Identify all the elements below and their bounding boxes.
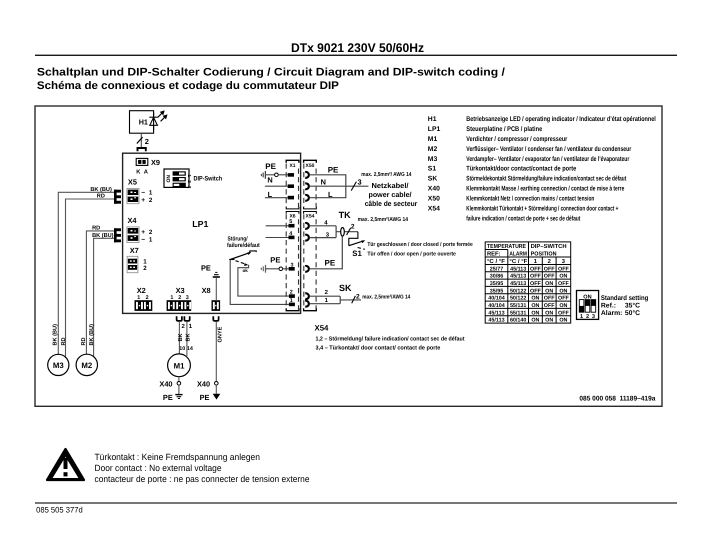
svg-text:50/122: 50/122 — [510, 288, 527, 294]
svg-text:ON: ON — [531, 303, 539, 309]
svg-text:ON: ON — [559, 303, 567, 309]
relay arm — [229, 259, 234, 261]
TK cable join bar — [335, 226, 337, 238]
svg-text:M2: M2 — [81, 361, 92, 370]
svg-text:3: 3 — [592, 314, 595, 320]
svg-text:Türkontakt : Keine Fremdspannu: Türkontakt : Keine Fremdspannung anlegen — [95, 452, 261, 462]
svg-text:50°C: 50°C — [625, 310, 640, 317]
svg-text:2: 2 — [290, 290, 293, 296]
svg-text:BK: BK — [186, 333, 192, 341]
svg-text:BK: BK — [178, 333, 184, 341]
svg-text:Verflüssiger– Ventilator / con: Verflüssiger– Ventilator / condenser fan… — [466, 146, 631, 153]
SK cable join bar — [339, 296, 341, 304]
svg-text:M1: M1 — [428, 136, 438, 143]
X6 column bracket top — [286, 212, 299, 214]
svg-text:PE: PE — [270, 255, 280, 264]
svg-text:TK: TK — [339, 210, 351, 220]
wire L to X1 — [265, 197, 288, 199]
svg-text:PE: PE — [265, 162, 276, 171]
X6 pin 4 — [289, 236, 295, 240]
svg-text:Tür geschlossen / door closed: Tür geschlossen / door closed / porte fe… — [367, 241, 472, 248]
svg-text:+: + — [141, 229, 145, 236]
svg-text:max. 2,5mm²/AWG 14: max. 2,5mm²/AWG 14 — [358, 216, 409, 223]
svg-text:085 505 377d: 085 505 377d — [36, 505, 83, 514]
svg-text:60/140: 60/140 — [510, 318, 527, 324]
wire X4 RD to M2 — [86, 231, 114, 355]
svg-text:DIP-Switch: DIP-Switch — [194, 175, 223, 182]
svg-text:3: 3 — [358, 178, 362, 187]
wire X50 N to cable — [310, 185, 346, 187]
svg-text:OFF: OFF — [530, 288, 541, 294]
lamp H1 box — [130, 111, 154, 134]
temperature DIP-switch table — [485, 242, 571, 323]
svg-text:X50: X50 — [428, 196, 440, 203]
wire X8 GNYE to X40 — [215, 322, 217, 382]
X6 pin 2 — [289, 294, 295, 298]
mains cable stub with 3-wire slash — [346, 185, 369, 187]
svg-text:PE: PE — [200, 393, 210, 402]
svg-text:ON: ON — [166, 175, 172, 183]
svg-text:Steuerplatine / PCB / platine: Steuerplatine / PCB / platine — [466, 126, 542, 133]
svg-text:OFF: OFF — [530, 281, 541, 287]
svg-text:X2: X2 — [137, 286, 146, 295]
X9 mating plug staple — [138, 148, 146, 151]
svg-text:H1: H1 — [428, 116, 437, 123]
svg-text:1,2 – Störmeldung/ failure ind: 1,2 – Störmeldung/ failure indication/ c… — [316, 335, 465, 342]
svg-text:X50: X50 — [306, 163, 315, 169]
X54 column bracket bottom — [304, 308, 317, 310]
svg-text:2: 2 — [356, 293, 360, 300]
svg-text:SK: SK — [428, 176, 438, 183]
svg-text:35/95: 35/95 — [490, 281, 504, 287]
svg-text:−: − — [141, 190, 145, 197]
svg-text:H1: H1 — [139, 117, 148, 126]
motor M1 compressor — [168, 354, 191, 377]
svg-text:Türkontakt/door contact/contac: Türkontakt/door contact/contact de porte — [466, 166, 576, 173]
clip under X3 pin 3 — [184, 316, 189, 321]
svg-text:ON: ON — [545, 281, 553, 287]
svg-text:55/131: 55/131 — [510, 310, 527, 316]
svg-text:RD: RD — [81, 337, 87, 345]
X1 column bracket top — [286, 160, 299, 162]
svg-text:M1: M1 — [174, 361, 185, 370]
svg-text:50/122: 50/122 — [510, 296, 527, 302]
svg-text:BK (BU): BK (BU) — [88, 324, 95, 346]
motor M2 — [76, 354, 97, 375]
svg-text:Störmeldekontakt Störmeldung/f: Störmeldekontakt Störmeldung/failure ind… — [466, 176, 627, 183]
wire X4 BK (BU) to M2 — [94, 238, 114, 356]
svg-text:OFF: OFF — [558, 281, 569, 287]
svg-text:Klemmkontakt Masse / earthing: Klemmkontakt Masse / earthing connection… — [466, 186, 624, 193]
X5 mating plug — [114, 190, 121, 204]
svg-text:BK (BU): BK (BU) — [92, 232, 114, 239]
svg-text:−: − — [141, 236, 145, 243]
svg-text:K A: K A — [136, 169, 148, 175]
svg-text:30/86: 30/86 — [490, 274, 504, 280]
X50 socket L — [305, 195, 309, 201]
svg-text:Ref.:: Ref.: — [601, 303, 616, 310]
svg-text:S1: S1 — [428, 166, 437, 173]
clip under X8 — [213, 316, 218, 321]
svg-text:L: L — [328, 190, 333, 199]
PCB LP1 frame — [123, 153, 301, 313]
svg-text:2: 2 — [351, 223, 355, 230]
X50 socket PE — [305, 172, 309, 178]
svg-text:Door contact : No external vol: Door contact : No external voltage — [95, 463, 222, 473]
clip under X3 pin 2 — [177, 316, 182, 321]
svg-text:LP1: LP1 — [192, 219, 208, 229]
svg-text:ON: ON — [545, 318, 553, 324]
svg-text:X7: X7 — [130, 246, 139, 255]
wire X54-1 to SK — [310, 303, 341, 305]
svg-text:3,4 – Türkontakt/ door contact: 3,4 – Türkontakt/ door contact/ contact … — [316, 344, 442, 351]
svg-text:Alarm:: Alarm: — [601, 310, 623, 317]
slash 2-wire mark at H1 — [137, 137, 143, 143]
svg-text:10: 10 — [179, 346, 185, 352]
svg-text:2: 2 — [145, 137, 149, 146]
svg-text:RD: RD — [92, 226, 100, 232]
svg-text:40/104: 40/104 — [488, 303, 505, 309]
svg-text:35°C: 35°C — [625, 303, 640, 310]
X1 column bracket bottom — [286, 207, 299, 209]
X50 column bracket bottom — [304, 207, 317, 209]
svg-text:2: 2 — [149, 229, 153, 236]
wire X3 pin2 to M1 — [178, 322, 180, 354]
svg-text:LP1: LP1 — [428, 126, 441, 133]
X1 pin L — [288, 196, 294, 200]
svg-text:+: + — [141, 197, 145, 204]
PE earth sideways at X1 — [261, 171, 265, 179]
svg-text:POSITION: POSITION — [531, 251, 557, 258]
svg-text:1: 1 — [580, 314, 583, 320]
TK cable sheath ellipse — [341, 228, 345, 237]
wire X54 PE up to TK cable — [310, 236, 343, 268]
svg-text:DTx 9021 230V 50/60Hz: DTx 9021 230V 50/60Hz — [291, 41, 424, 55]
wire X5 RD to M3 — [66, 199, 115, 357]
svg-text:REF:: REF: — [487, 252, 501, 258]
svg-text:M3: M3 — [428, 156, 438, 163]
wire X50 PE to cable — [310, 175, 346, 198]
X1 column dashed sides — [285, 164, 287, 208]
svg-text:N: N — [321, 177, 326, 186]
svg-text:OFF: OFF — [530, 274, 541, 280]
svg-text:Klemmkontakt Netz / connection: Klemmkontakt Netz / connection mains / c… — [466, 196, 594, 203]
svg-text:X54: X54 — [428, 206, 440, 213]
svg-text:Störung/: Störung/ — [228, 235, 248, 242]
svg-text:ON: ON — [559, 318, 567, 324]
svg-text:OFF: OFF — [544, 274, 555, 280]
svg-text:X40: X40 — [428, 186, 440, 193]
svg-text:TEMPERATURE: TEMPERATURE — [487, 244, 526, 250]
svg-text:45/113: 45/113 — [510, 266, 526, 272]
X6 pin 5 — [289, 224, 295, 228]
X4 mating plug — [114, 228, 121, 242]
LED D1 symbol on H1 — [149, 113, 158, 131]
svg-text:X3: X3 — [176, 286, 185, 295]
svg-text:ON: ON — [559, 288, 567, 294]
svg-text:X9: X9 — [151, 158, 160, 167]
svg-text:power cable/: power cable/ — [369, 190, 412, 199]
svg-text:OFF: OFF — [530, 266, 541, 272]
svg-text:OFF: OFF — [558, 310, 569, 316]
svg-text:3: 3 — [291, 262, 294, 268]
wire X54-2 to SK — [310, 295, 341, 297]
svg-text:X54: X54 — [306, 214, 315, 220]
wire X5 BK (BU) to M3 — [58, 192, 114, 354]
svg-text:Schaltplan und DIP-Schalter Co: Schaltplan und DIP-Schalter Codierung / … — [37, 67, 505, 79]
relay dashed actuation line — [236, 261, 247, 265]
svg-text:PE: PE — [201, 264, 211, 273]
svg-text:ON: ON — [545, 288, 553, 294]
X54 socket 2 — [305, 293, 309, 299]
svg-text:failure/défaut: failure/défaut — [227, 242, 260, 249]
svg-text:Verdampfer– Ventilator / evapo: Verdampfer– Ventilator / evaporator fan … — [466, 156, 629, 163]
svg-text:S1: S1 — [352, 249, 362, 258]
svg-text:Betriebsanzeige LED / operatin: Betriebsanzeige LED / operating indicato… — [466, 116, 656, 123]
svg-text:45/113: 45/113 — [488, 318, 504, 324]
svg-text:OFF: OFF — [558, 266, 569, 272]
svg-text:ok: ok — [243, 268, 249, 273]
svg-text:PE: PE — [328, 166, 339, 175]
svg-text:GNYE: GNYE — [218, 326, 224, 342]
svg-text:Standard setting: Standard setting — [601, 295, 648, 302]
svg-text:X8: X8 — [202, 286, 211, 295]
door switch S1 — [349, 232, 358, 246]
wire X54-3 to TK — [310, 237, 336, 239]
svg-text:1: 1 — [290, 298, 293, 304]
svg-text:PE: PE — [325, 258, 336, 267]
SK cable stub with 2-wire slash — [340, 299, 361, 301]
svg-text:contacteur de porte : ne pas c: contacteur de porte : ne pas connecter d… — [95, 474, 310, 484]
svg-text:2: 2 — [586, 314, 589, 320]
wire X54-4 to TK — [310, 225, 336, 227]
svg-text:M3: M3 — [53, 361, 64, 370]
title rule — [35, 55, 677, 56]
relay common wire to pin 1 — [230, 260, 289, 305]
DIP-Switch block on PCB — [164, 169, 192, 189]
X54 socket 3 — [305, 235, 309, 241]
svg-text:X5: X5 — [128, 177, 137, 186]
svg-text:55/131: 55/131 — [510, 303, 527, 309]
svg-text:35/95: 35/95 — [490, 288, 504, 294]
svg-text:ON: ON — [545, 310, 553, 316]
X54 socket 4 — [305, 223, 309, 229]
svg-text:ON: ON — [531, 310, 539, 316]
svg-text:RD: RD — [61, 337, 67, 345]
X54 socket 1 — [305, 301, 309, 307]
relay ok contact — [238, 265, 289, 296]
svg-text:DIP–SWITCH: DIP–SWITCH — [531, 243, 567, 250]
svg-text:25/77: 25/77 — [490, 266, 504, 272]
relay upper contact bend — [250, 251, 256, 253]
motor M3 — [48, 354, 69, 375]
svg-text:ON: ON — [531, 318, 539, 324]
svg-text:1: 1 — [149, 236, 153, 243]
X6 pin 5 stub wire — [266, 225, 289, 227]
svg-text:X40: X40 — [197, 380, 210, 389]
X6 pin 3 — [289, 267, 295, 271]
connector X9 on PCB — [136, 158, 148, 165]
svg-text:45/113: 45/113 — [488, 310, 504, 316]
TK cable stub — [336, 231, 358, 233]
X54 socket PE — [305, 266, 309, 272]
svg-text:RD: RD — [97, 194, 105, 200]
svg-text:2: 2 — [548, 258, 551, 265]
LED light arrows — [158, 111, 167, 121]
X6 pin 4 stub wire — [266, 237, 289, 239]
wire X8 to PE earth — [215, 278, 217, 301]
svg-text:M2: M2 — [428, 146, 438, 153]
X6 column dashed sides — [285, 214, 287, 308]
svg-text:X1: X1 — [289, 163, 295, 169]
svg-text:max. 2,5mm²/ AWG 14: max. 2,5mm²/ AWG 14 — [361, 171, 412, 178]
TK 2-wire slash — [347, 228, 351, 235]
svg-text:2: 2 — [149, 197, 153, 204]
svg-text:failure indication / contact d: failure indication / contact de porte + … — [466, 216, 581, 223]
svg-text:4: 4 — [289, 231, 292, 237]
svg-text:X40: X40 — [159, 380, 172, 389]
X50 column bracket top — [304, 160, 317, 162]
wire PE to X1 with test point — [265, 174, 274, 176]
svg-text:OFF: OFF — [544, 266, 555, 272]
svg-text:°C / °F: °C / °F — [509, 258, 527, 265]
svg-text:45/113: 45/113 — [510, 281, 526, 287]
svg-text:OFF: OFF — [544, 303, 555, 309]
svg-text:Schéma de connexious et codage: Schéma de connexious et codage du commut… — [37, 80, 339, 92]
svg-text:45/113: 45/113 — [510, 274, 526, 280]
svg-text:PE: PE — [163, 393, 173, 402]
diagram outer frame — [35, 106, 662, 406]
svg-text:Tür offen / door open / porte: Tür offen / door open / porte ouverte — [367, 250, 456, 257]
svg-text:5: 5 — [289, 219, 292, 225]
svg-text:ALARM: ALARM — [509, 252, 527, 258]
X6 column bracket bottom — [286, 308, 299, 310]
svg-text:085 000 058 11189–419a: 085 000 058 11189–419a — [579, 396, 655, 403]
svg-text:max. 2,5mm²/AWG 14: max. 2,5mm²/AWG 14 — [362, 293, 411, 300]
svg-text:BK (BU): BK (BU) — [90, 186, 112, 193]
svg-text:ON: ON — [531, 296, 539, 302]
wire N to X1 — [265, 185, 288, 187]
svg-text:Klemmkontakt Türkontakt + Stör: Klemmkontakt Türkontakt + Störmeldung / … — [466, 206, 618, 213]
warning triangle — [47, 449, 84, 480]
X50 column dashed sides — [303, 164, 305, 208]
wire M1 to X40 — [178, 377, 180, 382]
bottom rule — [35, 502, 677, 503]
svg-text:ON: ON — [559, 274, 567, 280]
X1 pin N — [288, 184, 294, 188]
svg-text:X54: X54 — [315, 324, 330, 333]
X54 column bracket top — [304, 212, 317, 214]
legend key list — [428, 116, 656, 223]
svg-text:1: 1 — [149, 190, 153, 197]
svg-text:40/104: 40/104 — [488, 296, 505, 302]
svg-text:câble de secteur: câble de secteur — [365, 199, 418, 208]
svg-text:Netzkabel/: Netzkabel/ — [372, 181, 409, 190]
X54 column dashed sides — [303, 214, 305, 308]
svg-text:N: N — [267, 176, 272, 185]
svg-text:2: 2 — [143, 265, 147, 272]
svg-text:SK: SK — [339, 283, 352, 293]
svg-text:Verdichter / compressor / comp: Verdichter / compressor / compresseur — [466, 136, 567, 143]
X50 socket N — [305, 183, 309, 189]
svg-text:°C / °F: °C / °F — [487, 258, 505, 265]
wire H1 to X9 plug — [140, 133, 142, 147]
svg-text:X4: X4 — [128, 216, 138, 225]
X6 pin 1 — [289, 303, 295, 307]
DIP switch standard setting icon — [577, 291, 599, 320]
svg-text:14: 14 — [187, 346, 193, 352]
wire X3 pin3 to M1 — [186, 322, 188, 356]
svg-text:OFF: OFF — [544, 296, 555, 302]
svg-text:BK (BU): BK (BU) — [51, 324, 58, 346]
X1 pin PE — [288, 173, 294, 177]
svg-text:OFF: OFF — [558, 296, 569, 302]
